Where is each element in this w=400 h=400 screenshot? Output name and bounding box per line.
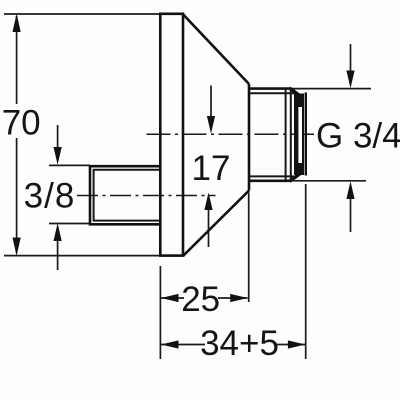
svg-text:34+5: 34+5: [200, 324, 279, 363]
svg-text:3/8: 3/8: [24, 177, 76, 216]
svg-text:25: 25: [181, 280, 220, 319]
svg-text:70: 70: [2, 103, 41, 142]
svg-text:17: 17: [192, 149, 231, 188]
svg-text:G 3/4: G 3/4: [316, 117, 400, 156]
